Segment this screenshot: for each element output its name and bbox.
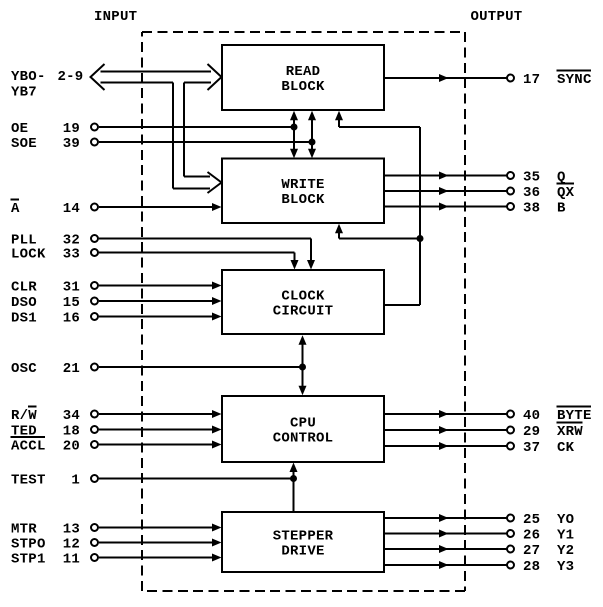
svg-text:INPUT: INPUT — [94, 9, 137, 25]
svg-text:15: 15 — [63, 295, 80, 311]
pin 33 LOCK label+terminal — [11, 246, 98, 262]
title INPUT — [94, 9, 137, 25]
svg-text:25: 25 — [523, 512, 540, 528]
svg-text:TEST: TEST — [11, 472, 46, 488]
svg-text:21: 21 — [63, 361, 80, 377]
junction dot N3 — [417, 235, 424, 242]
svg-text:33: 33 — [63, 246, 80, 262]
wire TEST down to STEPPER DRIVE top — [293, 479, 295, 514]
svg-text:BYTE: BYTE — [557, 408, 592, 424]
net V2 READ-WRITE bidirectional (SOE) — [308, 111, 316, 158]
svg-text:BLOCK: BLOCK — [281, 192, 325, 208]
svg-text:A: A — [11, 201, 20, 217]
output pin 25 Y0 from STEPPER DRIVE — [385, 512, 574, 528]
output pin 36 QX-bar from WRITE BLOCK — [385, 184, 575, 201]
net V1 READ-WRITE bidirectional (OE) — [290, 111, 298, 158]
output pin 40 BYTE-bar from CPU CONTROL — [385, 407, 592, 424]
pin 34 R/W-bar label+terminal — [11, 407, 98, 424]
net N3 CLOCK output to READ bottom — [335, 111, 420, 305]
svg-text:CK: CK — [557, 440, 575, 456]
svg-text:B: B — [557, 200, 566, 216]
svg-text:YB7: YB7 — [11, 84, 37, 100]
svg-text:STEPPER: STEPPER — [273, 528, 334, 544]
svg-text:OSC: OSC — [11, 361, 37, 377]
svg-text:CLR: CLR — [11, 279, 37, 295]
svg-text:14: 14 — [63, 201, 80, 217]
net N3 branch to WRITE bottom — [335, 224, 420, 239]
pin 1 TEST label+terminal — [11, 472, 98, 488]
wire OSC to CLOCK/CPU net — [99, 366, 303, 368]
pin 32 PLL label+terminal — [11, 232, 98, 248]
bus YB0-YB7 pins 2-9 labels — [11, 69, 83, 100]
wire CLR into CLOCK CIRCUIT — [99, 282, 222, 290]
svg-text:QX: QX — [557, 185, 575, 201]
wire SOE to READ/WRITE vertical net — [99, 141, 312, 143]
svg-text:19: 19 — [63, 121, 80, 137]
svg-text:OUTPUT: OUTPUT — [471, 9, 523, 25]
output pin 28 Y3 from STEPPER DRIVE — [385, 559, 574, 575]
pin 14 A-bar label+terminal — [11, 200, 99, 217]
svg-text:37: 37 — [523, 440, 540, 456]
bus branch down to WRITE BLOCK — [173, 83, 222, 194]
svg-text:DRIVE: DRIVE — [281, 543, 324, 559]
svg-text:SYNC: SYNC — [557, 72, 592, 88]
svg-text:STP1: STP1 — [11, 551, 46, 567]
svg-text:27: 27 — [523, 543, 540, 559]
svg-text:Y1: Y1 — [557, 527, 574, 543]
wire TEST up into CPU CONTROL bottom — [290, 463, 298, 479]
svg-text:YBO-: YBO- — [11, 69, 46, 85]
wire DS1 into CLOCK CIRCUIT — [99, 313, 222, 321]
pin 20 ACCL-bar label+terminal — [11, 437, 99, 454]
pin 15 DSO label+terminal — [11, 295, 98, 311]
svg-text:DSO: DSO — [11, 295, 37, 311]
wire R/W into CPU CONTROL — [99, 410, 222, 418]
output pin 27 Y2 from STEPPER DRIVE — [385, 543, 574, 559]
svg-text:YO: YO — [557, 512, 574, 528]
svg-text:35: 35 — [523, 169, 540, 185]
pin 18 TED label+terminal — [11, 423, 98, 439]
output pin 37 CK from CPU CONTROL — [385, 440, 575, 456]
output pin 17 SYNC-bar from READ BLOCK — [385, 71, 592, 88]
chip boundary (dashed border) — [142, 32, 465, 591]
junction dot OE net — [291, 124, 298, 131]
pin 16 DS1 label+terminal — [11, 310, 98, 326]
wire A-bar into WRITE BLOCK — [99, 203, 222, 211]
pin 13 MTR label+terminal — [11, 521, 98, 537]
svg-text:STPO: STPO — [11, 536, 46, 552]
wire TED into CPU CONTROL — [99, 426, 222, 434]
svg-text:1: 1 — [71, 472, 80, 488]
CPU CONTROL block U-CPU — [222, 396, 384, 462]
net V4 CLOCK-CPU bidirectional (OSC) — [299, 335, 307, 395]
wire MTR into STEPPER DRIVE — [99, 524, 222, 532]
junction dot TEST net — [290, 475, 297, 482]
svg-text:CONTROL: CONTROL — [273, 430, 334, 446]
svg-text:40: 40 — [523, 408, 540, 424]
pin 31 CLR label+terminal — [11, 279, 98, 295]
svg-text:MTR: MTR — [11, 521, 37, 537]
svg-text:11: 11 — [63, 551, 80, 567]
title OUTPUT — [471, 9, 523, 25]
svg-text:17: 17 — [523, 72, 540, 88]
svg-text:Y2: Y2 — [557, 543, 574, 559]
STEPPER DRIVE block U-STEP — [222, 512, 384, 572]
svg-text:13: 13 — [63, 521, 80, 537]
svg-text:12: 12 — [63, 536, 80, 552]
svg-text:R/W: R/W — [11, 408, 37, 424]
svg-text:28: 28 — [523, 559, 540, 575]
svg-text:20: 20 — [63, 438, 80, 454]
output pin 38 B from WRITE BLOCK — [385, 200, 566, 216]
wire STP0 into STEPPER DRIVE — [99, 539, 222, 547]
svg-text:OE: OE — [11, 121, 28, 137]
junction dot SOE net — [309, 139, 316, 146]
svg-text:ACCL: ACCL — [11, 438, 46, 454]
WRITE BLOCK block U-WRITE — [222, 159, 384, 224]
output pin 26 Y1 from STEPPER DRIVE — [385, 527, 574, 543]
svg-text:READ: READ — [286, 64, 321, 80]
svg-text:CPU: CPU — [290, 415, 316, 431]
svg-text:DS1: DS1 — [11, 310, 37, 326]
pin 39 SOE label+terminal — [11, 136, 98, 152]
bus YB0-YB7 double-line bus into READ BLOCK — [91, 64, 222, 90]
output pin 35 Q from WRITE BLOCK — [385, 169, 566, 185]
READ BLOCK block U-READ — [222, 45, 384, 110]
svg-text:18: 18 — [63, 423, 80, 439]
wire DSO into CLOCK CIRCUIT — [99, 297, 222, 305]
svg-text:Y3: Y3 — [557, 559, 574, 575]
wire ACCL into CPU CONTROL — [99, 441, 222, 449]
svg-text:36: 36 — [523, 185, 540, 201]
svg-text:2-9: 2-9 — [58, 69, 84, 85]
pin 21 OSC label+terminal — [11, 361, 98, 377]
output pin 29 XRW-bar from CPU CONTROL — [385, 423, 583, 440]
svg-text:CIRCUIT: CIRCUIT — [273, 303, 334, 319]
svg-text:39: 39 — [63, 136, 80, 152]
wire LOCK to CLOCK CIRCUIT top — [99, 253, 299, 270]
svg-text:34: 34 — [63, 408, 80, 424]
CLOCK CIRCUIT block U-CLK — [222, 270, 384, 334]
svg-text:BLOCK: BLOCK — [281, 79, 325, 95]
svg-text:LOCK: LOCK — [11, 246, 46, 262]
svg-text:29: 29 — [523, 424, 540, 440]
svg-text:38: 38 — [523, 200, 540, 216]
pin 12 STP0 label+terminal — [11, 536, 98, 552]
svg-text:16: 16 — [63, 310, 80, 326]
svg-text:CLOCK: CLOCK — [281, 288, 325, 304]
pin 19 OE label+terminal — [11, 121, 98, 137]
wire OE to READ/WRITE vertical net — [99, 126, 294, 128]
wire STP1 into STEPPER DRIVE — [99, 554, 222, 562]
svg-text:26: 26 — [523, 527, 540, 543]
pin 11 STP1 label+terminal — [11, 551, 98, 567]
wire PLL to CLOCK CIRCUIT top — [99, 239, 315, 270]
wire TEST horizontal — [99, 478, 294, 480]
junction dot OSC net — [299, 364, 306, 371]
svg-text:SOE: SOE — [11, 136, 37, 152]
svg-text:31: 31 — [63, 279, 80, 295]
svg-text:WRITE: WRITE — [281, 177, 324, 193]
svg-text:XRW: XRW — [557, 424, 583, 440]
